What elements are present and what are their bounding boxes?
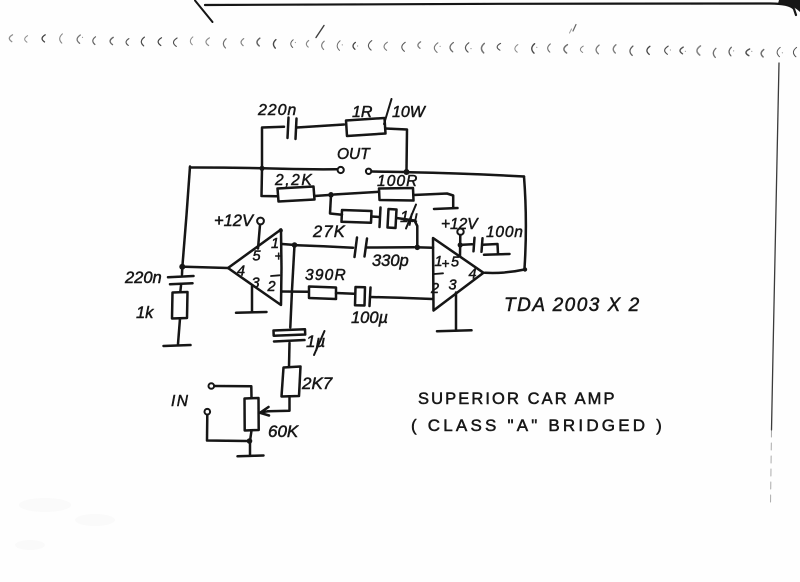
wire: node E down through 390R line to C5	[290, 245, 294, 328]
capacitor C5 1u (bottom, series input)	[274, 329, 306, 335]
node: corner dot bottom right of loop	[523, 267, 527, 271]
node A: junction left	[179, 264, 185, 270]
svg-text:1R: 1R	[352, 104, 373, 121]
wire: +12V right down to U2 top edge	[459, 235, 462, 256]
ground G4 (below U2)	[437, 330, 472, 331]
U2 minus input mark	[435, 272, 444, 275]
svg-text:SUPERIOR CAR AMP: SUPERIOR CAR AMP	[418, 390, 617, 408]
svg-text:100µ: 100µ	[351, 309, 388, 327]
capacitor C3 330p	[355, 238, 358, 258]
svg-text:220n: 220n	[257, 102, 297, 119]
wire: C2 right, corner down to node D	[397, 218, 418, 245]
svg-text:100n: 100n	[486, 224, 524, 241]
node C: junction between R2 and R3	[328, 192, 334, 198]
wire: op-amp1 pin2 to R5	[282, 290, 309, 293]
svg-text:2K7: 2K7	[301, 374, 333, 393]
wire: C3 to node D to op-amp2	[367, 246, 414, 249]
node: junction on bus at 220n branch	[259, 166, 264, 171]
page top edge	[205, 0, 800, 15]
svg-text:390R: 390R	[305, 267, 347, 284]
svg-text:TDA 2003 X 2: TDA 2003 X 2	[504, 295, 641, 316]
wire: node C to R3	[334, 192, 379, 195]
wire: right edge vertical of output loop	[524, 177, 526, 269]
node: dot at U1 base top corner	[279, 228, 283, 232]
capacitor C4 100u	[355, 287, 365, 306]
svg-text:2,2K: 2,2K	[274, 172, 313, 189]
svg-text:IN: IN	[171, 393, 190, 410]
ground G2	[238, 454, 264, 457]
svg-text:27K: 27K	[312, 223, 346, 241]
potentiometer R7 60K	[245, 398, 259, 431]
resistor R6 2K7	[282, 367, 301, 397]
wire: pot bottom lead to node F	[250, 431, 252, 442]
U1 minus input mark	[271, 274, 280, 277]
ground G3	[164, 345, 191, 346]
svg-text:OUT: OUT	[337, 146, 371, 163]
wire: U2 pin3 down	[455, 293, 458, 330]
terminal: IN top circle	[209, 383, 215, 389]
svg-text:4: 4	[469, 267, 477, 283]
resistor R5 390R	[309, 287, 336, 300]
wire: IN bottom terminal down and right to node F	[207, 415, 247, 441]
op-amp U1 (left TDA2003)	[228, 230, 282, 306]
wire: R3 to +12V rail stub	[414, 194, 454, 208]
wire: R4 to C2	[372, 215, 380, 218]
capacitor C6 220n (left, to node A)	[181, 267, 184, 275]
svg-text:( CLASS "A" BRIDGED ): ( CLASS "A" BRIDGED )	[411, 416, 665, 435]
wire: bottom of loop into op-amp 2 output	[485, 270, 525, 273]
terminal: IN bottom circle	[205, 409, 211, 415]
node F: junction below pot	[247, 438, 253, 444]
wire: +12V circle to U1 top edge	[258, 225, 260, 249]
wire: node E to C3	[297, 245, 353, 248]
wire: U1 pin3 down	[251, 286, 254, 312]
node E: junction at pin1	[292, 242, 298, 248]
resistor R8 1k	[172, 292, 188, 319]
svg-text:+: +	[442, 256, 450, 271]
wire: R5 to C4	[336, 292, 354, 295]
wire: node F to ground	[249, 441, 252, 455]
svg-text:2: 2	[430, 281, 439, 297]
svg-text:4: 4	[237, 264, 245, 280]
terminal: OUT left circle	[338, 167, 344, 173]
capacitor C2 1u (box style)	[380, 208, 381, 228]
capacitor C1 220n (top)	[288, 118, 289, 139]
node G: junction on +12V drop	[458, 242, 463, 247]
stray tick above holes right	[573, 25, 576, 32]
op-amp U2 (right TDA2003)	[433, 238, 484, 311]
ground: bar right of C7	[484, 253, 510, 256]
wire: R6 down, corner to pot wiper arrow	[268, 397, 290, 412]
wire: bus node down to R2	[262, 169, 278, 196]
power: +12V rail bar (right of R3)	[434, 208, 458, 209]
wire: R2 to node C	[315, 195, 330, 196]
svg-text:1k: 1k	[136, 304, 154, 322]
svg-text:220n: 220n	[124, 269, 162, 287]
wire: pot top lead and to IN top terminal	[215, 386, 252, 398]
resistor R3 100R	[379, 188, 414, 201]
wire: op-amp1 pin1 to node E	[282, 243, 292, 246]
resistor R1 1R/10W	[346, 118, 386, 136]
wire: node G to C7	[463, 243, 473, 246]
svg-text:10W: 10W	[392, 104, 427, 121]
capacitor C7 100n	[474, 238, 475, 252]
wire: R8 to ground	[178, 319, 180, 345]
wire: C7 right corner down to ground bar	[483, 244, 499, 254]
wire: left vertical from top bus to node A	[183, 167, 191, 266]
stray pen stroke top left	[195, 1, 213, 23]
page right edge	[772, 63, 780, 430]
wire: 220n top branch riser	[262, 127, 284, 168]
wire: C5 to R6	[288, 343, 291, 367]
wire: node C down to R4	[330, 195, 342, 215]
svg-text:60K: 60K	[268, 422, 299, 441]
svg-text:3: 3	[449, 278, 457, 294]
svg-text:5: 5	[253, 249, 262, 265]
ground G1 (below U1)	[236, 311, 267, 314]
stray tick above holes	[316, 26, 324, 38]
spiral binding hole marks	[9, 34, 796, 58]
svg-text:5: 5	[451, 255, 460, 271]
svg-text:+12V: +12V	[441, 216, 479, 233]
svg-text:2: 2	[267, 279, 276, 295]
wire: R1 to corner and down to node B	[386, 129, 408, 171]
wire: top bus left segment	[190, 167, 337, 169]
node D: junction on 330p line	[415, 245, 421, 251]
terminal: OUT right circle	[366, 169, 371, 174]
wire: bus right segment to right edge	[409, 172, 524, 176]
node B: bus junction below 1R resistor	[404, 169, 410, 175]
svg-text:+: +	[275, 249, 283, 264]
wire: bus between OUT terminal and node B	[372, 170, 405, 173]
svg-text:330p: 330p	[372, 252, 409, 270]
svg-text:100R: 100R	[377, 173, 418, 190]
wire: U1 output (apex) to node A	[185, 267, 228, 268]
wire: C4 to op-amp2 pin2	[371, 297, 433, 299]
svg-text:+12V: +12V	[214, 212, 255, 230]
pot wiper arrow	[261, 411, 268, 412]
faint scanner smudges bottom left	[15, 498, 115, 550]
resistor R4 (feedback, with C2)	[342, 210, 372, 223]
resistor R2 2.2K	[278, 187, 315, 202]
wire: C1 to R1	[297, 125, 344, 128]
